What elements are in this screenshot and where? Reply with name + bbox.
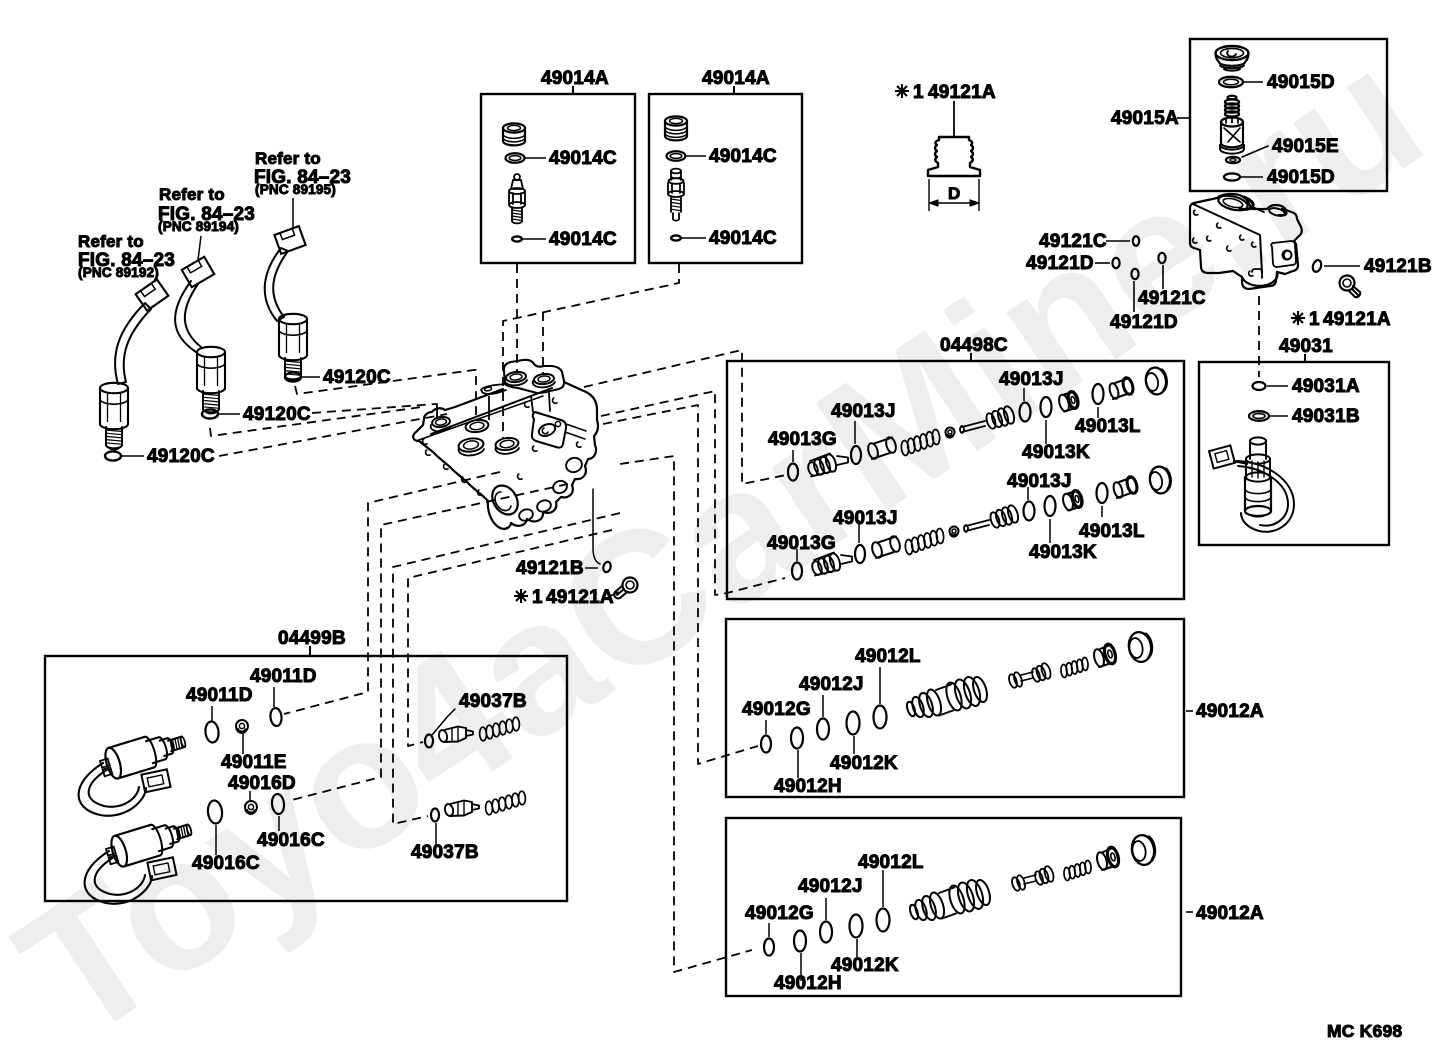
o-ring 49016C #1	[271, 793, 285, 814]
piston	[1108, 382, 1120, 400]
svg-text:49016C: 49016C	[192, 853, 260, 874]
svg-text:49012A: 49012A	[1196, 903, 1264, 924]
svg-text:49121D: 49121D	[1110, 312, 1178, 333]
dashed plane to 49016C	[288, 484, 568, 801]
svg-text:49015D: 49015D	[1267, 72, 1335, 93]
svg-text:49120C: 49120C	[323, 367, 391, 388]
dashed leader sensor3 to block	[295, 370, 476, 420]
svg-text:49031B: 49031B	[1292, 406, 1360, 427]
o-ring 49015D lower	[1224, 173, 1240, 180]
boss port with pin	[431, 416, 450, 428]
cup 49015	[1226, 157, 1240, 163]
svg-text:49121A: 49121A	[928, 82, 996, 103]
o-ring 49015D upper	[1219, 77, 1243, 87]
o-ring 49013L	[1097, 483, 1108, 503]
end cap	[1130, 833, 1157, 866]
grommet 49016D	[245, 801, 257, 813]
sensor 49031	[1209, 445, 1235, 468]
o-ring 49121D #2	[1131, 269, 1138, 279]
svg-text:Refer to: Refer to	[159, 185, 225, 204]
svg-text:49014C: 49014C	[549, 148, 617, 169]
bolt *1 49121A lower	[623, 578, 638, 593]
svg-text:Refer to: Refer to	[78, 232, 144, 251]
piston cluster	[905, 701, 916, 717]
reservoir cap	[1216, 46, 1249, 60]
o-ring 49121B	[1311, 259, 1322, 273]
svg-text:49013J: 49013J	[1007, 471, 1072, 492]
rod assembly	[1008, 673, 1019, 688]
svg-text:49013L: 49013L	[1079, 521, 1145, 542]
svg-text:49121A: 49121A	[1323, 309, 1391, 330]
svg-text:49016D: 49016D	[228, 773, 296, 794]
svg-text:49014A: 49014A	[541, 68, 609, 89]
solenoid 49016 lower	[103, 814, 195, 870]
label 49012A bottom	[1186, 911, 1193, 913]
dashed branch to deck port 2	[542, 312, 544, 373]
svg-text:1: 1	[532, 587, 543, 608]
o-ring 49012H	[794, 931, 806, 952]
right bracket with port	[532, 412, 566, 448]
svg-text:49012J: 49012J	[798, 876, 863, 897]
front face edges	[431, 388, 552, 434]
svg-text:1: 1	[1309, 309, 1320, 330]
dashed plane to 04498C row1	[584, 350, 786, 484]
right lower cylinder ends	[564, 456, 584, 475]
svg-text:MC K698: MC K698	[1327, 1021, 1402, 1041]
plug piston 49013	[811, 560, 824, 576]
svg-text:49011D: 49011D	[186, 685, 253, 706]
solenoid wire upper	[79, 763, 146, 816]
dashed plane to 49037B lower	[393, 513, 620, 824]
bleeder kit 49037B lower	[431, 809, 439, 822]
svg-text:49012L: 49012L	[855, 646, 921, 667]
o-ring 49012G	[764, 939, 774, 956]
o-ring 49014C #1b	[512, 236, 522, 241]
block body outline	[413, 382, 598, 529]
valve 49014A#2	[671, 169, 681, 174]
flange holes	[426, 450, 430, 455]
screw plug cap 49014A#1	[503, 123, 525, 132]
block face edges below deck	[531, 393, 550, 412]
ABS actuator block	[504, 360, 564, 393]
svg-text:49121D: 49121D	[1026, 253, 1094, 274]
bottom boss	[1242, 272, 1277, 286]
dashed leader sensor1 to block	[219, 414, 447, 456]
box 04498C	[727, 361, 1184, 599]
svg-text:49011E: 49011E	[221, 752, 287, 773]
block feet	[518, 507, 535, 522]
piston cluster	[908, 904, 919, 920]
end cap	[1148, 465, 1172, 495]
dashed plane to 49037B upper	[408, 530, 612, 746]
svg-text:49031A: 49031A	[1292, 376, 1360, 397]
svg-text:49012K: 49012K	[831, 955, 899, 976]
svg-text:49012G: 49012G	[742, 699, 811, 720]
o-ring 49012J	[820, 922, 832, 943]
cup cylinder	[866, 442, 879, 460]
box 49015A	[1190, 39, 1387, 191]
bleeder kit 49037B upper	[425, 735, 433, 748]
svg-text:49011D: 49011D	[250, 666, 317, 687]
spring	[905, 539, 914, 555]
solenoid wire lower	[85, 851, 152, 904]
svg-text:49014C: 49014C	[549, 229, 617, 250]
dashed from MC to 49031 box	[1258, 296, 1260, 377]
dashed line from box1 to block port	[516, 264, 518, 372]
small holes on body	[423, 439, 427, 444]
o-ring 49011D #2	[270, 707, 283, 726]
svg-text:04498C: 04498C	[940, 335, 1008, 356]
rod piston	[962, 421, 985, 432]
cup seal	[1057, 394, 1070, 413]
svg-text:49121B: 49121B	[516, 558, 584, 579]
svg-text:49012H: 49012H	[774, 776, 842, 797]
o-ring 49120C #1	[105, 451, 121, 460]
spring	[1061, 664, 1068, 677]
retainer ring	[946, 428, 955, 437]
spring 49015	[1228, 96, 1237, 100]
o-ring 49031A	[1253, 382, 1266, 390]
deck port P2	[534, 373, 555, 385]
svg-text:49121C: 49121C	[1039, 231, 1107, 252]
o-ring 49013K	[1045, 496, 1056, 516]
threaded adapter 49121A	[928, 137, 980, 176]
svg-text:04499B: 04499B	[278, 628, 346, 649]
o-ring 49016C #2	[207, 800, 223, 824]
valve 49015E body	[1221, 118, 1243, 127]
pressure switch sensor 3 (PNC 89195)	[274, 226, 305, 254]
cup	[1095, 851, 1109, 871]
svg-text:D: D	[948, 184, 960, 203]
svg-text:49013K: 49013K	[1022, 442, 1090, 463]
o-ring 49012H	[791, 728, 803, 749]
o-ring 49014C #2a	[667, 151, 686, 161]
master cylinder top edge	[1193, 204, 1262, 273]
svg-text:49015E: 49015E	[1272, 136, 1339, 157]
o-ring 49012L	[874, 706, 887, 729]
49121B o-ring near block	[602, 561, 612, 573]
svg-text:49014C: 49014C	[709, 146, 777, 167]
pressure switch sensor 2 (PNC 89194)	[182, 257, 215, 287]
svg-text:49031: 49031	[1279, 336, 1333, 357]
o-ring 49013G	[788, 464, 798, 481]
grommet 49011E	[236, 720, 248, 732]
cable 49031	[1236, 461, 1294, 532]
svg-text:49120C: 49120C	[243, 404, 311, 425]
screw plug cap 49014A#2	[665, 116, 687, 125]
dashed plane to 49012A bottom	[620, 456, 752, 972]
o-ring 49013G	[792, 563, 802, 580]
o-ring 49012J	[817, 719, 829, 740]
svg-text:49013J: 49013J	[833, 508, 898, 529]
label 49012A middle	[1186, 710, 1193, 712]
box 49012A bottom	[726, 818, 1181, 996]
dashed plane to 49011D	[284, 472, 500, 714]
cup cylinder	[870, 541, 883, 559]
svg-text:49013K: 49013K	[1029, 542, 1097, 563]
end cap	[1127, 630, 1154, 663]
svg-text:49120C: 49120C	[147, 446, 215, 467]
svg-text:49014C: 49014C	[709, 228, 777, 249]
cup seal	[1061, 493, 1074, 512]
svg-text:(PNC 89195): (PNC 89195)	[255, 182, 336, 197]
svg-text:49012G: 49012G	[745, 903, 814, 924]
rod assembly	[1011, 876, 1022, 891]
svg-text:49015A: 49015A	[1111, 108, 1179, 129]
o-ring 49014C #1a	[506, 153, 525, 163]
o-ring 49121D #1	[1112, 258, 1119, 268]
o-ring 49011D #1	[204, 721, 219, 743]
box 49012A middle	[726, 619, 1184, 797]
master cylinder body	[1190, 194, 1302, 289]
svg-text:49013J: 49013J	[999, 369, 1064, 390]
label *1 49121A top	[895, 84, 909, 98]
o-ring 49120C #2	[202, 409, 218, 418]
label *1 49121A right	[1291, 311, 1305, 325]
o-ring 49121C #2	[1158, 253, 1165, 263]
o-ring 49013J b	[1020, 403, 1031, 422]
plug piston 49013	[807, 461, 820, 477]
end cap	[1144, 366, 1168, 396]
o-ring 49031B	[1249, 411, 1269, 421]
svg-text:1: 1	[913, 82, 924, 103]
svg-text:Refer to: Refer to	[255, 149, 321, 168]
small port opening	[1268, 207, 1285, 217]
svg-text:49012L: 49012L	[858, 852, 924, 873]
svg-text:49012H: 49012H	[774, 973, 842, 994]
front deck ports	[465, 418, 489, 433]
o-ring 49121C #1	[1133, 236, 1139, 246]
o-ring 49013K	[1041, 397, 1052, 417]
svg-text:49037B: 49037B	[459, 691, 527, 712]
svg-text:49016C: 49016C	[257, 830, 325, 851]
svg-text:49014A: 49014A	[702, 68, 770, 89]
o-ring 49012K	[847, 712, 860, 735]
cup	[1092, 648, 1106, 668]
svg-text:(PNC 89194): (PNC 89194)	[158, 219, 239, 234]
deck port P1	[506, 371, 527, 383]
svg-text:49013L: 49013L	[1075, 416, 1141, 437]
svg-text:49012J: 49012J	[799, 674, 864, 695]
svg-text:49037B: 49037B	[411, 842, 479, 863]
box 04499B	[45, 656, 567, 901]
o-ring 49014C #2b	[671, 235, 681, 240]
svg-text:49013G: 49013G	[768, 429, 837, 450]
leader 49015E	[1242, 146, 1268, 157]
bolt 49121A right	[1340, 276, 1355, 291]
o-ring 49013J b	[1024, 502, 1035, 521]
spring	[901, 440, 910, 456]
svg-text:49121B: 49121B	[1364, 256, 1432, 277]
o-ring 49013J a	[851, 446, 861, 464]
dimension D	[928, 179, 930, 211]
spring	[1064, 867, 1071, 880]
retainer ring	[950, 527, 959, 536]
dashed leader sensor2 label to boss	[312, 404, 437, 419]
svg-text:49012A: 49012A	[1196, 701, 1264, 722]
pressure switch sensor 1 (PNC 89192)	[136, 279, 169, 310]
o-ring 49013J a	[855, 545, 865, 563]
o-ring 49012L	[877, 909, 890, 932]
box 49031	[1199, 362, 1389, 545]
right mounting face	[1271, 241, 1296, 267]
svg-text:49015D: 49015D	[1267, 167, 1335, 188]
rod piston	[966, 520, 989, 531]
o-ring 49012K	[850, 915, 863, 938]
dashed plane to 49012A middle	[603, 405, 758, 764]
dashed line from box2 to block port	[503, 264, 679, 438]
piston	[1112, 481, 1124, 499]
box 49014A #1	[481, 94, 635, 263]
tiny hook holes on face	[1194, 210, 1198, 215]
block bottom cylinder bore	[487, 481, 523, 519]
leader line	[953, 101, 955, 137]
solenoid 49011 upper	[97, 726, 189, 782]
dashed plane to 04498C row2	[601, 391, 785, 595]
dashed leader sensor2 o-ring to block	[210, 407, 422, 436]
bleeder valve 49014A#1	[514, 174, 520, 180]
svg-text:(PNC 89192): (PNC 89192)	[78, 265, 159, 280]
svg-text:49013J: 49013J	[831, 401, 896, 422]
reservoir port opening	[1217, 193, 1249, 213]
svg-text:49121A: 49121A	[546, 587, 614, 608]
o-ring 49120C #3	[285, 372, 301, 381]
svg-text:49121C: 49121C	[1138, 288, 1206, 309]
svg-text:49012K: 49012K	[830, 753, 898, 774]
box 49014A #2	[649, 94, 802, 263]
label *1 49121A lower-left	[514, 589, 528, 603]
o-ring 49013L	[1093, 384, 1104, 404]
left tab with hole	[481, 384, 506, 394]
o-ring 49012G	[761, 736, 771, 753]
svg-text:49013G: 49013G	[767, 533, 836, 554]
